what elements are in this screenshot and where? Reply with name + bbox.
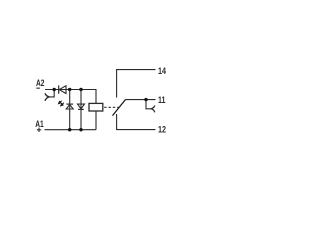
actuator dashed link — [104, 106, 120, 108]
wire A1 rail — [45, 129, 97, 131]
junction dot top D2 — [79, 88, 82, 91]
svg-text:A1: A1 — [35, 119, 44, 130]
terminal label A2 — [36, 78, 45, 89]
svg-text:14: 14 — [158, 66, 166, 77]
wire contact 12 — [117, 114, 156, 130]
svg-text:A2: A2 — [36, 78, 45, 89]
LED D3 — [66, 104, 73, 109]
wire D2 branch — [80, 90, 82, 130]
svg-text:12: 12 — [158, 124, 166, 135]
svg-text:11: 11 — [158, 95, 166, 106]
junction dot bottom LED — [68, 128, 71, 131]
diode D2 flyback — [78, 104, 85, 109]
junction dot top clamp — [53, 88, 56, 91]
wire coil bottom — [95, 111, 97, 130]
junction dot 11 — [144, 98, 147, 101]
clamp A2 — [45, 90, 54, 101]
wire contact 11 — [126, 99, 156, 101]
terminal label A1 — [35, 119, 44, 132]
clamp 11 — [146, 100, 155, 113]
junction dot bottom D2 — [79, 128, 82, 131]
contact arm — [113, 99, 126, 115]
diode D1 — [59, 85, 66, 93]
LED arrows — [59, 101, 64, 106]
wire LED branch — [69, 90, 71, 130]
junction dot top LED — [68, 88, 71, 91]
relay coil K1 — [89, 103, 103, 111]
wire contact 14 — [117, 70, 156, 98]
wire A2 rail — [45, 90, 96, 104]
